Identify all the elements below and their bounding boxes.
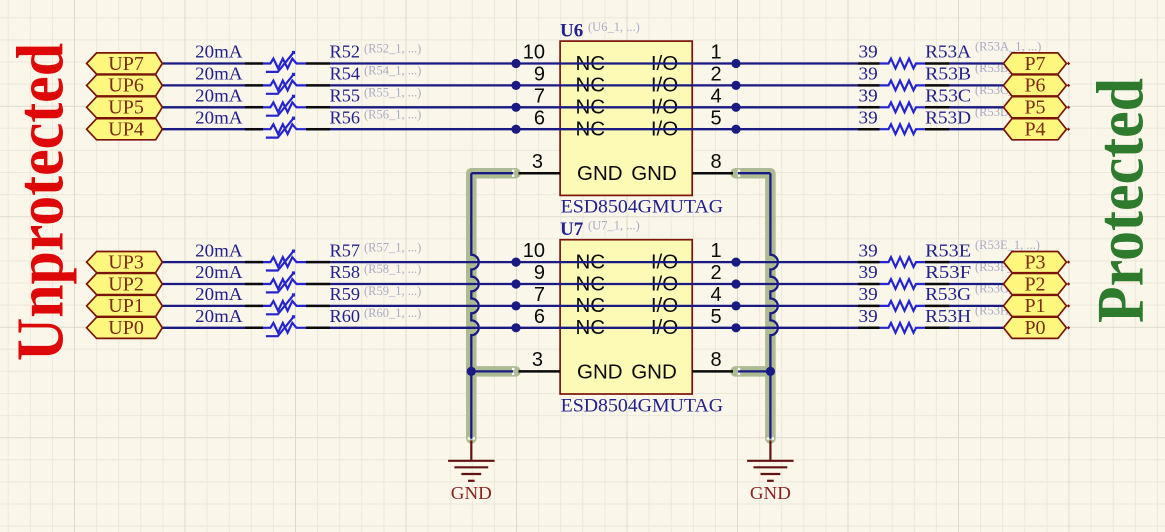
U7 pin numbers [523, 240, 722, 371]
svg-text:10: 10 [523, 240, 545, 262]
label ESD8504GMUTAG U7 [561, 396, 724, 416]
svg-text:ESD8504GMUTAG: ESD8504GMUTAG [561, 396, 724, 416]
svg-text:9: 9 [534, 262, 545, 284]
label 20mA row 1 [195, 42, 243, 62]
svg-text:(U6_1, ...): (U6_1, ...) [588, 20, 640, 34]
svg-text:(R60_1, ...): (R60_1, ...) [364, 306, 421, 320]
label 39 row 2 [859, 64, 878, 84]
svg-text:UP2: UP2 [108, 273, 144, 295]
label R53B sublabel [975, 61, 1041, 75]
label R53B [925, 64, 971, 84]
svg-text:(R57_1, ...): (R57_1, ...) [364, 240, 421, 254]
label R53H sublabel [975, 304, 1041, 318]
varistor R56 [245, 117, 330, 138]
port P6 [1004, 75, 1071, 97]
svg-text:P5: P5 [1024, 97, 1045, 119]
U6 pin 8 [692, 172, 733, 175]
label R53A [925, 42, 971, 62]
svg-text:UP7: UP7 [108, 53, 144, 75]
svg-text:UP0: UP0 [108, 317, 144, 339]
svg-text:R60: R60 [330, 306, 361, 326]
svg-text:4: 4 [711, 284, 722, 306]
svg-text:P6: P6 [1024, 75, 1045, 97]
wire UP0-P0 [162, 327, 1003, 329]
svg-text:P7: P7 [1024, 53, 1045, 75]
highlight cap marker U7 pin8 [738, 368, 740, 375]
junction GND left [467, 367, 476, 376]
svg-text:3: 3 [532, 151, 543, 173]
svg-text:Protected: Protected [1084, 78, 1158, 323]
junction right row 5 [731, 258, 740, 267]
svg-text:7: 7 [534, 85, 545, 107]
port P2 [1004, 273, 1071, 295]
svg-text:R53C: R53C [925, 86, 971, 106]
IC U6 body [560, 41, 692, 195]
svg-text:R53A: R53A [925, 42, 971, 62]
junction left row 7 [511, 301, 520, 310]
label R55 [330, 86, 422, 106]
label 20mA row 8 [195, 306, 243, 326]
svg-text:P3: P3 [1024, 251, 1045, 273]
svg-text:20mA: 20mA [195, 107, 243, 127]
text Unprotected [4, 43, 78, 361]
label R53G sublabel [975, 282, 1041, 296]
label 20mA row 2 [195, 64, 243, 84]
svg-text:P4: P4 [1024, 119, 1045, 141]
junction right row 4 [731, 125, 740, 134]
svg-text:7: 7 [534, 284, 545, 306]
label R53A sublabel [975, 39, 1041, 53]
highlight cap marker right bottom [767, 437, 774, 439]
junction right row 6 [731, 279, 740, 288]
resistor R53C [858, 102, 950, 112]
svg-text:6: 6 [534, 306, 545, 328]
resistor R53D [858, 124, 950, 134]
U6 pin names NC I/O GND [576, 52, 679, 185]
svg-text:(U7_1, ...): (U7_1, ...) [588, 219, 640, 233]
port P3 [1004, 251, 1071, 273]
svg-text:39: 39 [859, 107, 878, 127]
resistor R53B [858, 81, 950, 91]
label 39 row 3 [859, 86, 878, 106]
wire GND stub U7 pin3 [471, 370, 513, 372]
svg-text:GND: GND [631, 162, 677, 185]
svg-text:Unprotected: Unprotected [4, 43, 78, 361]
svg-text:GND: GND [577, 360, 623, 383]
highlight cap marker U6 pin8 [738, 170, 740, 177]
wire GND stub U7 pin8 [738, 370, 770, 372]
varistor R59 [245, 293, 330, 314]
svg-text:(R58_1, ...): (R58_1, ...) [364, 262, 421, 276]
svg-text:R53H: R53H [925, 306, 971, 326]
svg-text:20mA: 20mA [195, 306, 243, 326]
svg-text:39: 39 [859, 306, 878, 326]
varistor R60 [245, 315, 330, 336]
svg-text:P1: P1 [1024, 295, 1045, 317]
svg-text:R59: R59 [330, 284, 361, 304]
label ESD8504GMUTAG U6 [561, 198, 724, 218]
svg-text:(R59_1, ...): (R59_1, ...) [364, 284, 421, 298]
label R57 [330, 240, 422, 260]
svg-text:20mA: 20mA [195, 240, 243, 260]
svg-text:4: 4 [711, 85, 722, 107]
varistor R52 [245, 51, 330, 72]
svg-text:GND: GND [451, 483, 492, 503]
highlight cap marker U6 pin3 [512, 170, 514, 177]
net highlight GND right [736, 173, 771, 438]
svg-text:20mA: 20mA [195, 42, 243, 62]
label 20mA row 7 [195, 284, 243, 304]
label R53E sublabel [975, 238, 1040, 252]
net highlight GND left [471, 173, 515, 438]
junction right row 2 [731, 81, 740, 90]
svg-text:R57: R57 [330, 240, 361, 260]
text Protected [1084, 78, 1158, 323]
label 39 row 5 [859, 240, 878, 260]
svg-text:UP6: UP6 [108, 75, 144, 97]
label R53F sublabel [975, 260, 1039, 274]
label U7 [560, 219, 640, 241]
U7 pin 3 [519, 370, 561, 373]
varistor R58 [245, 271, 330, 292]
svg-text:20mA: 20mA [195, 262, 243, 282]
svg-text:8: 8 [711, 151, 722, 173]
varistor R54 [245, 73, 330, 94]
svg-text:5: 5 [711, 306, 722, 328]
svg-text:39: 39 [859, 86, 878, 106]
label R53D sublabel [975, 105, 1041, 119]
svg-text:R53D: R53D [925, 107, 971, 127]
resistor R53G [858, 301, 950, 311]
ground GND left [448, 441, 495, 504]
svg-text:R58: R58 [330, 262, 361, 282]
label R53D [925, 107, 971, 127]
port UP0 [87, 317, 163, 339]
port UP1 [87, 295, 163, 317]
U7 pin 8 [692, 370, 733, 373]
ground GND right [747, 441, 794, 504]
svg-text:ESD8504GMUTAG: ESD8504GMUTAG [561, 198, 724, 218]
svg-text:2: 2 [711, 262, 722, 284]
svg-text:U7: U7 [560, 219, 584, 240]
junction left row 4 [511, 125, 520, 134]
label U6 [560, 20, 640, 42]
wire GND vertical right with hops [770, 173, 777, 439]
svg-text:2: 2 [711, 64, 722, 86]
svg-text:R53B: R53B [925, 64, 971, 84]
U7 pin names NC I/O GND [576, 250, 679, 383]
svg-text:U6: U6 [560, 21, 583, 42]
label 39 row 1 [859, 42, 878, 62]
port UP4 [87, 119, 163, 141]
label R53G [925, 284, 971, 304]
svg-text:R54: R54 [330, 64, 361, 84]
wire UP1-P1 [162, 305, 1003, 307]
port P7 [1004, 53, 1071, 75]
svg-text:UP3: UP3 [108, 251, 144, 273]
wire GND stub U6 pin8 [738, 172, 770, 174]
junction right row 1 [731, 59, 740, 68]
label 39 row 6 [859, 262, 878, 282]
label 20mA row 6 [195, 262, 243, 282]
label R53C sublabel [975, 83, 1041, 97]
resistor R53E [858, 257, 950, 267]
junction right row 3 [731, 103, 740, 112]
svg-text:10: 10 [523, 42, 545, 64]
junction left row 1 [511, 59, 520, 68]
svg-text:R55: R55 [330, 86, 361, 106]
port P5 [1004, 97, 1071, 119]
svg-text:(R54_1, ...): (R54_1, ...) [364, 64, 421, 78]
svg-text:(R52_1, ...): (R52_1, ...) [364, 42, 421, 56]
svg-text:(R53E_1, ...): (R53E_1, ...) [975, 238, 1040, 252]
svg-text:1: 1 [711, 42, 722, 64]
svg-text:39: 39 [859, 284, 878, 304]
svg-text:39: 39 [859, 42, 878, 62]
svg-text:6: 6 [534, 107, 545, 129]
wire UP3-P3 [162, 261, 1003, 263]
resistor R53F [858, 279, 950, 289]
junction GND right [766, 367, 775, 376]
wire UP7-P7 [162, 62, 1003, 64]
port P4 [1004, 119, 1071, 141]
U6 pin 3 [519, 172, 561, 175]
label R53F [925, 262, 971, 282]
port UP5 [87, 97, 163, 119]
svg-text:20mA: 20mA [195, 64, 243, 84]
wire UP4-P4 [162, 128, 1003, 130]
varistor R57 [245, 250, 330, 271]
svg-text:R53F: R53F [925, 262, 971, 282]
junction left row 8 [511, 323, 520, 332]
label 20mA row 4 [195, 107, 243, 127]
highlight cap marker U7 pin3 [512, 368, 514, 375]
label R52 [330, 42, 422, 62]
junction left row 2 [511, 81, 520, 90]
svg-text:9: 9 [534, 64, 545, 86]
port UP7 [87, 53, 163, 75]
svg-text:UP1: UP1 [108, 295, 144, 317]
wire GND stub U6 pin3 [471, 172, 513, 174]
svg-text:R53G: R53G [925, 284, 971, 304]
svg-text:39: 39 [859, 64, 878, 84]
svg-text:(R56_1, ...): (R56_1, ...) [364, 107, 421, 121]
varistor R55 [245, 95, 330, 116]
label 39 row 7 [859, 284, 878, 304]
svg-text:GND: GND [750, 483, 791, 503]
wire UP5-P5 [162, 106, 1003, 108]
svg-text:20mA: 20mA [195, 284, 243, 304]
port UP2 [87, 273, 163, 295]
junction right row 7 [731, 301, 740, 310]
svg-text:UP5: UP5 [108, 97, 144, 119]
svg-text:R53E: R53E [925, 240, 971, 260]
label R54 [330, 64, 422, 84]
svg-text:3: 3 [532, 349, 543, 371]
label R53C [925, 86, 971, 106]
svg-text:P0: P0 [1024, 317, 1045, 339]
junction left row 5 [511, 258, 520, 267]
svg-text:8: 8 [711, 349, 722, 371]
svg-text:39: 39 [859, 262, 878, 282]
U6 pin numbers [523, 42, 722, 173]
svg-text:GND: GND [577, 162, 623, 185]
svg-text:P2: P2 [1024, 273, 1045, 295]
wire UP2-P2 [162, 283, 1003, 285]
junction left row 6 [511, 279, 520, 288]
junction left row 3 [511, 103, 520, 112]
wire GND vertical left with hops [471, 173, 478, 439]
label R56 [330, 107, 422, 127]
port P0 [1004, 317, 1071, 339]
label R53E [925, 240, 971, 260]
label 39 row 4 [859, 107, 878, 127]
port UP6 [87, 75, 163, 97]
svg-text:GND: GND [631, 360, 677, 383]
svg-text:UP4: UP4 [108, 119, 144, 141]
label 20mA row 5 [195, 240, 243, 260]
label 20mA row 3 [195, 86, 243, 106]
svg-text:R52: R52 [330, 42, 361, 62]
highlight cap marker left bottom [468, 437, 475, 439]
junction right row 8 [731, 323, 740, 332]
svg-text:(R55_1, ...): (R55_1, ...) [364, 86, 421, 100]
svg-text:20mA: 20mA [195, 86, 243, 106]
port P1 [1004, 295, 1071, 317]
svg-text:1: 1 [711, 240, 722, 262]
resistor R53A [858, 59, 950, 69]
port UP3 [87, 251, 163, 273]
wire UP6-P6 [162, 84, 1003, 86]
label R60 [330, 306, 422, 326]
svg-text:(R53A_1, ...): (R53A_1, ...) [975, 39, 1041, 53]
svg-text:R56: R56 [330, 107, 361, 127]
label 39 row 8 [859, 306, 878, 326]
svg-text:39: 39 [859, 240, 878, 260]
label R59 [330, 284, 422, 304]
IC U7 body [560, 240, 692, 394]
label R53H [925, 306, 971, 326]
svg-text:5: 5 [711, 107, 722, 129]
resistor R53H [858, 323, 950, 333]
label R58 [330, 262, 422, 282]
